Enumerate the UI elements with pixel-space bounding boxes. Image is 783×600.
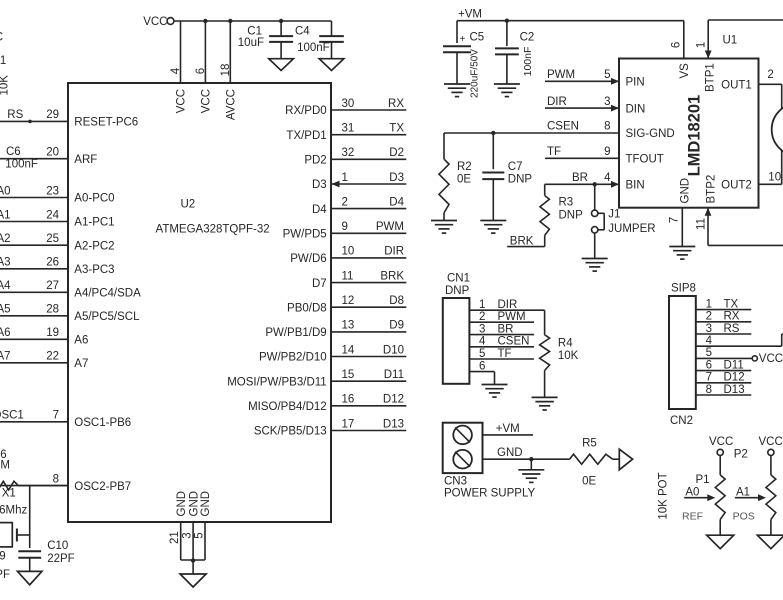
svg-text:REF: REF bbox=[682, 511, 703, 523]
svg-text:PWM: PWM bbox=[547, 69, 575, 81]
svg-text:CSEN: CSEN bbox=[547, 121, 579, 133]
svg-text:BRK: BRK bbox=[380, 270, 404, 282]
svg-text:TX/PD1: TX/PD1 bbox=[286, 130, 326, 142]
svg-text:23: 23 bbox=[46, 185, 59, 197]
svg-text:10: 10 bbox=[342, 246, 355, 258]
svg-text:10: 10 bbox=[768, 172, 781, 184]
svg-text:A1: A1 bbox=[736, 487, 750, 499]
svg-text:C4: C4 bbox=[295, 26, 310, 38]
svg-text:D3: D3 bbox=[312, 179, 327, 191]
svg-text:5: 5 bbox=[706, 347, 712, 359]
svg-text:BTP2: BTP2 bbox=[705, 175, 717, 204]
svg-text:A0-PC0: A0-PC0 bbox=[74, 193, 114, 205]
svg-text:7: 7 bbox=[53, 410, 59, 422]
svg-text:A7: A7 bbox=[0, 351, 11, 363]
svg-text:RX: RX bbox=[724, 311, 740, 323]
svg-text:PW/PD5: PW/PD5 bbox=[283, 229, 327, 241]
svg-text:1M: 1M bbox=[0, 460, 10, 472]
svg-text:D12: D12 bbox=[383, 394, 404, 406]
svg-text:28: 28 bbox=[46, 304, 59, 316]
svg-text:16: 16 bbox=[342, 394, 355, 406]
svg-text:VCC: VCC bbox=[759, 353, 783, 365]
svg-text:8: 8 bbox=[604, 121, 610, 133]
svg-text:18: 18 bbox=[220, 64, 232, 77]
svg-text:A2: A2 bbox=[0, 233, 11, 245]
svg-text:SIG-GND: SIG-GND bbox=[626, 128, 675, 140]
svg-text:BTP1: BTP1 bbox=[705, 63, 717, 92]
svg-text:3: 3 bbox=[604, 96, 610, 108]
svg-text:VCC: VCC bbox=[201, 89, 213, 113]
svg-text:A6: A6 bbox=[0, 327, 11, 339]
svg-text:220uF/50V: 220uF/50V bbox=[470, 49, 481, 98]
svg-text:OUT1: OUT1 bbox=[721, 79, 752, 91]
svg-text:9: 9 bbox=[604, 146, 610, 158]
svg-text:100nF: 100nF bbox=[5, 159, 38, 171]
svg-text:DIR: DIR bbox=[384, 246, 404, 258]
svg-text:0E: 0E bbox=[457, 174, 471, 186]
svg-text:1: 1 bbox=[695, 42, 707, 48]
svg-text:27: 27 bbox=[46, 280, 59, 292]
svg-text:100nF: 100nF bbox=[297, 42, 330, 54]
svg-text:D3: D3 bbox=[389, 172, 404, 184]
svg-text:15: 15 bbox=[342, 369, 355, 381]
svg-text:VCC: VCC bbox=[759, 436, 783, 448]
svg-text:D2: D2 bbox=[389, 147, 404, 159]
svg-text:U2: U2 bbox=[181, 199, 196, 211]
svg-text:POS: POS bbox=[733, 511, 755, 523]
svg-text:32: 32 bbox=[342, 147, 355, 159]
svg-text:PIN: PIN bbox=[626, 77, 645, 89]
svg-text:TFOUT: TFOUT bbox=[626, 154, 664, 166]
svg-text:A1-PC1: A1-PC1 bbox=[74, 217, 114, 229]
svg-text:OUT2: OUT2 bbox=[721, 180, 752, 192]
svg-text:PB0/D8: PB0/D8 bbox=[287, 302, 327, 314]
svg-text:R4: R4 bbox=[558, 337, 573, 349]
svg-text:26: 26 bbox=[46, 257, 59, 269]
svg-text:D7: D7 bbox=[312, 278, 327, 290]
svg-text:4: 4 bbox=[706, 335, 713, 347]
svg-text:RS: RS bbox=[7, 109, 23, 121]
svg-text:22: 22 bbox=[46, 351, 59, 363]
svg-text:13: 13 bbox=[342, 320, 355, 332]
svg-text:4: 4 bbox=[604, 172, 611, 184]
svg-text:A4/PC4/SDA: A4/PC4/SDA bbox=[74, 288, 141, 300]
svg-text:MOSI/PW/PB3/D11: MOSI/PW/PB3/D11 bbox=[227, 376, 326, 388]
svg-text:6: 6 bbox=[195, 68, 207, 74]
svg-text:VCC: VCC bbox=[143, 16, 167, 28]
svg-text:31: 31 bbox=[342, 123, 355, 135]
svg-text:RX/PD0: RX/PD0 bbox=[285, 105, 327, 117]
svg-text:CN1: CN1 bbox=[447, 273, 470, 285]
svg-text:GND: GND bbox=[188, 491, 200, 517]
svg-text:GND: GND bbox=[679, 178, 691, 204]
svg-text:1: 1 bbox=[706, 298, 712, 310]
svg-text:GND: GND bbox=[200, 491, 212, 517]
svg-text:A5/PC5/SCL: A5/PC5/SCL bbox=[74, 311, 140, 323]
svg-text:SCK/PB5/D13: SCK/PB5/D13 bbox=[254, 426, 327, 438]
svg-text:GND: GND bbox=[497, 447, 523, 459]
svg-text:P1: P1 bbox=[696, 474, 710, 486]
svg-text:100nF: 100nF bbox=[522, 47, 534, 77]
svg-text:8: 8 bbox=[706, 384, 712, 396]
svg-text:RESET-PC6: RESET-PC6 bbox=[74, 117, 138, 129]
svg-text:DIR: DIR bbox=[547, 96, 567, 108]
svg-text:+VM: +VM bbox=[496, 423, 520, 435]
svg-text:PWM: PWM bbox=[376, 221, 404, 233]
svg-text:DNP: DNP bbox=[559, 210, 584, 222]
svg-text:P2: P2 bbox=[734, 449, 748, 461]
svg-text:22PF: 22PF bbox=[47, 553, 74, 565]
svg-text:22PF: 22PF bbox=[0, 569, 10, 581]
svg-text:A4: A4 bbox=[0, 280, 11, 292]
svg-text:A6: A6 bbox=[74, 335, 88, 347]
svg-text:3: 3 bbox=[706, 323, 712, 335]
svg-text:PD2: PD2 bbox=[304, 155, 326, 167]
svg-text:R3: R3 bbox=[559, 197, 574, 209]
svg-text:MISO/PB4/D12: MISO/PB4/D12 bbox=[248, 401, 327, 413]
svg-text:12: 12 bbox=[342, 295, 355, 307]
svg-text:D11: D11 bbox=[724, 359, 744, 371]
svg-text:17: 17 bbox=[342, 418, 355, 430]
svg-text:RX: RX bbox=[388, 98, 404, 110]
svg-text:6: 6 bbox=[706, 359, 712, 371]
svg-text:20: 20 bbox=[46, 147, 59, 159]
svg-text:D12: D12 bbox=[724, 372, 745, 384]
svg-text:A3: A3 bbox=[0, 257, 11, 269]
svg-text:D9: D9 bbox=[389, 320, 404, 332]
svg-text:U1: U1 bbox=[723, 35, 738, 47]
svg-text:D13: D13 bbox=[724, 384, 745, 396]
svg-text:10uF: 10uF bbox=[238, 37, 264, 49]
svg-text:SIP8: SIP8 bbox=[671, 283, 696, 295]
svg-text:5: 5 bbox=[604, 69, 610, 81]
svg-text:R5: R5 bbox=[582, 438, 597, 450]
svg-text:TF: TF bbox=[547, 146, 561, 158]
svg-text:3: 3 bbox=[479, 323, 485, 335]
svg-text:PWM: PWM bbox=[498, 311, 526, 323]
svg-text:25: 25 bbox=[46, 233, 59, 245]
svg-text:TX: TX bbox=[724, 298, 739, 310]
svg-text:PW/PB1/D9: PW/PB1/D9 bbox=[265, 327, 326, 339]
svg-text:1: 1 bbox=[479, 299, 485, 311]
svg-text:5: 5 bbox=[193, 532, 205, 538]
svg-text:A0: A0 bbox=[685, 487, 699, 499]
svg-text:D13: D13 bbox=[383, 418, 404, 430]
svg-text:JUMPER: JUMPER bbox=[608, 223, 655, 235]
svg-text:C2: C2 bbox=[520, 31, 535, 43]
svg-text:+VM: +VM bbox=[458, 9, 482, 21]
svg-text:D4: D4 bbox=[312, 204, 327, 216]
svg-text:7: 7 bbox=[706, 372, 712, 384]
svg-text:J1: J1 bbox=[608, 209, 620, 221]
svg-text:OSC1-PB6: OSC1-PB6 bbox=[74, 417, 131, 429]
svg-text:CSEN: CSEN bbox=[498, 336, 530, 348]
svg-text:11: 11 bbox=[342, 270, 354, 282]
svg-text:C6: C6 bbox=[6, 146, 21, 158]
svg-text:2: 2 bbox=[479, 311, 485, 323]
svg-text:A7: A7 bbox=[74, 358, 88, 370]
svg-text:GND: GND bbox=[176, 491, 188, 517]
svg-text:2: 2 bbox=[706, 311, 712, 323]
svg-text:11: 11 bbox=[696, 218, 708, 230]
svg-text:30: 30 bbox=[342, 98, 355, 110]
svg-text:BR: BR bbox=[572, 172, 588, 184]
svg-text:2: 2 bbox=[342, 196, 348, 208]
svg-text:10K: 10K bbox=[558, 350, 579, 362]
svg-text:TF: TF bbox=[498, 348, 512, 360]
svg-text:PW/PB2/D10: PW/PB2/D10 bbox=[259, 352, 327, 364]
svg-text:2: 2 bbox=[767, 69, 773, 81]
svg-text:POWER SUPPLY: POWER SUPPLY bbox=[444, 487, 535, 499]
svg-text:DNP: DNP bbox=[508, 174, 533, 186]
svg-text:A5: A5 bbox=[0, 304, 11, 316]
svg-text:24: 24 bbox=[46, 209, 59, 221]
svg-text:10K: 10K bbox=[0, 75, 11, 96]
svg-text:14: 14 bbox=[342, 344, 355, 356]
svg-text:ARF: ARF bbox=[74, 154, 97, 166]
svg-text:21: 21 bbox=[0, 55, 6, 67]
svg-text:21: 21 bbox=[169, 531, 181, 544]
svg-text:D8: D8 bbox=[389, 295, 404, 307]
svg-text:BR: BR bbox=[498, 323, 514, 335]
svg-text:OSC1: OSC1 bbox=[0, 410, 24, 422]
svg-text:6: 6 bbox=[479, 360, 485, 372]
svg-text:D11: D11 bbox=[384, 369, 404, 381]
svg-text:C5: C5 bbox=[470, 31, 485, 43]
svg-text:1: 1 bbox=[342, 172, 348, 184]
svg-text:7: 7 bbox=[669, 217, 681, 223]
svg-text:+: + bbox=[460, 34, 466, 45]
svg-text:3: 3 bbox=[182, 532, 194, 538]
svg-text:10K POT: 10K POT bbox=[658, 472, 670, 519]
svg-text:19: 19 bbox=[46, 327, 59, 339]
svg-text:29: 29 bbox=[46, 109, 59, 121]
svg-text:5: 5 bbox=[479, 348, 485, 360]
svg-text:A3-PC3: A3-PC3 bbox=[74, 264, 114, 276]
svg-text:4: 4 bbox=[170, 67, 182, 74]
svg-text:VS: VS bbox=[679, 63, 691, 79]
svg-text:D4: D4 bbox=[389, 196, 404, 208]
svg-text:BIN: BIN bbox=[626, 180, 645, 192]
svg-text:A2-PC2: A2-PC2 bbox=[74, 240, 114, 252]
svg-text:4: 4 bbox=[479, 336, 486, 348]
svg-text:DNP: DNP bbox=[445, 285, 470, 297]
svg-text:VCC: VCC bbox=[0, 32, 3, 44]
svg-text:0E: 0E bbox=[582, 476, 596, 488]
svg-text:AVCC: AVCC bbox=[226, 89, 238, 120]
svg-text:8: 8 bbox=[53, 473, 59, 485]
svg-text:X1: X1 bbox=[2, 487, 16, 499]
svg-text:A1: A1 bbox=[0, 209, 11, 221]
svg-text:RS: RS bbox=[724, 323, 740, 335]
svg-text:C9: C9 bbox=[0, 551, 6, 563]
svg-text:C1: C1 bbox=[247, 26, 262, 38]
svg-text:DIN: DIN bbox=[626, 103, 646, 115]
svg-text:BRK: BRK bbox=[510, 235, 534, 247]
svg-text:D10: D10 bbox=[383, 344, 404, 356]
svg-text:VCC: VCC bbox=[176, 89, 188, 113]
svg-text:TX: TX bbox=[389, 123, 404, 135]
svg-text:9: 9 bbox=[342, 221, 348, 233]
svg-text:DIR: DIR bbox=[498, 299, 518, 311]
svg-text:ATMEGA328TQPF-32: ATMEGA328TQPF-32 bbox=[156, 224, 270, 236]
svg-text:OSC2-PB7: OSC2-PB7 bbox=[74, 481, 131, 493]
svg-text:C7: C7 bbox=[508, 161, 523, 173]
svg-text:PW/D6: PW/D6 bbox=[290, 253, 326, 265]
svg-text:CN3: CN3 bbox=[444, 476, 467, 488]
svg-text:CN2: CN2 bbox=[670, 415, 693, 427]
svg-text:LMD18201: LMD18201 bbox=[686, 95, 704, 177]
svg-text:C10: C10 bbox=[47, 540, 68, 552]
svg-text:16Mhz: 16Mhz bbox=[0, 504, 27, 516]
svg-text:A0: A0 bbox=[0, 185, 11, 197]
svg-text:R2: R2 bbox=[457, 161, 472, 173]
svg-text:VCC: VCC bbox=[709, 436, 733, 448]
svg-text:6: 6 bbox=[671, 42, 683, 48]
